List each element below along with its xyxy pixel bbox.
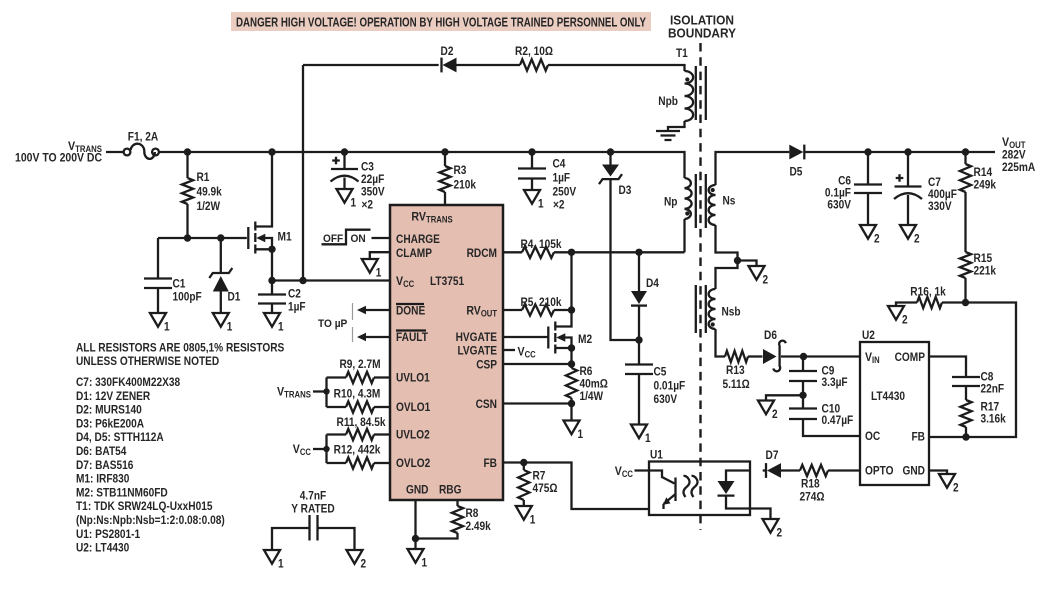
svg-text:OC: OC (865, 429, 880, 443)
resistor R17 (960, 400, 971, 427)
wire output rail (805, 151, 995, 153)
svg-text:CSP: CSP (476, 358, 497, 372)
capacitor C1 (157, 238, 159, 279)
svg-text:ALL RESISTORS ARE 0805,1% RESI: ALL RESISTORS ARE 0805,1% RESISTORS (76, 343, 285, 355)
svg-text:1/2W: 1/2W (197, 199, 221, 213)
svg-text:274Ω: 274Ω (800, 490, 825, 504)
svg-text:1: 1 (422, 555, 428, 569)
wire R18 to OPTO (828, 469, 860, 471)
node junction R1-bottom (184, 234, 191, 241)
wire D6 to VIN (781, 355, 860, 357)
op-amp U1 optocoupler PS2801 (649, 462, 750, 516)
op-amp U2 LT4430 block (860, 342, 929, 485)
wire M2 drain riser (570, 252, 572, 310)
svg-text:M2: STB11NM60FD: M2: STB11NM60FD (76, 487, 168, 499)
resistor R6 (570, 364, 572, 368)
svg-text:HVGATE: HVGATE (456, 330, 497, 344)
transformer T1 winding Nsb (709, 289, 716, 329)
ground 1 at CLAMP pin (370, 252, 390, 259)
svg-text:1: 1 (578, 427, 584, 441)
transformer T1 winding Ns (709, 185, 716, 225)
svg-text:C4: C4 (553, 156, 566, 170)
resistor R13 (725, 351, 748, 362)
node phase dot Ns (711, 188, 715, 192)
node VCC sense (323, 446, 329, 452)
node junction Ns-gnd (734, 257, 741, 264)
svg-text:2: 2 (772, 407, 778, 421)
svg-text:(Np:Ns:Npb:Nsb=1:2:0.08:0.08): (Np:Ns:Npb:Nsb=1:2:0.08:0.08) (76, 515, 225, 527)
svg-text:R8: R8 (466, 506, 479, 520)
node junction clamp-D4 (635, 249, 642, 256)
resistor R2 (520, 59, 548, 70)
svg-text:T1: TDK SRW24LQ-UxxH015: T1: TDK SRW24LQ-UxxH015 (76, 501, 213, 513)
svg-text:C2: C2 (288, 287, 301, 301)
node junction rail-R1 (184, 148, 191, 155)
node junction CSP (568, 360, 575, 367)
svg-text:D3: P6kE200A: D3: P6kE200A (76, 418, 144, 430)
node junction rail-C4 (528, 148, 535, 155)
capacitor C4 (531, 152, 533, 169)
transistor U1 phototransistor (674, 478, 676, 502)
diode D7 (763, 469, 767, 471)
svg-text:100V TO 200V DC: 100V TO 200V DC (15, 152, 103, 165)
svg-text:250V: 250V (553, 184, 577, 198)
svg-text:M1: IRF830: M1: IRF830 (76, 474, 129, 486)
ground 2 under C7 (900, 225, 916, 239)
svg-text:350V: 350V (361, 185, 385, 199)
node VTRANS sense (323, 388, 329, 394)
resistor R5 (503, 309, 522, 311)
diode D1 zener (220, 238, 222, 273)
node junction CSN (568, 400, 575, 407)
capacitor C5 (638, 340, 640, 365)
node junction D3-D4-C5 (635, 336, 642, 343)
node junction R17-FB (962, 433, 969, 440)
svg-text:2: 2 (777, 525, 783, 539)
svg-text:1: 1 (538, 196, 544, 210)
svg-text:D4, D5: STTH112A: D4, D5: STTH112A (76, 432, 164, 444)
transformer T1 core lower (696, 285, 706, 333)
svg-text:GND: GND (903, 464, 926, 478)
svg-text:D2: MURS140: D2: MURS140 (76, 405, 142, 417)
svg-text:D5: D5 (790, 165, 803, 179)
svg-text:OVLO1: OVLO1 (396, 400, 430, 414)
wire CSP (503, 363, 572, 365)
ground 1 under C5 (631, 425, 647, 439)
svg-text:LT3751: LT3751 (430, 274, 464, 288)
ground 2 at R16 (888, 306, 904, 320)
svg-text:1µF: 1µF (553, 171, 571, 185)
diode U1 photodiode (726, 471, 750, 482)
ground 2 under U2 GND (939, 474, 955, 488)
wire Ns top to output rail (716, 152, 790, 185)
danger high voltage banner (231, 12, 651, 31)
node junction divider (962, 299, 969, 306)
svg-text:4.7nF: 4.7nF (300, 489, 327, 503)
svg-text:FB: FB (484, 456, 498, 470)
svg-text:×2: ×2 (553, 197, 565, 211)
wire VCC into U1 (635, 471, 675, 484)
resistor R12 (327, 462, 347, 464)
diode D5 (789, 145, 803, 160)
svg-text:D1: 12V ZENER: D1: 12V ZENER (76, 391, 151, 403)
wire R5 to M2 drain (554, 309, 572, 311)
transistor M2 nmos (555, 310, 571, 327)
wire input to fuse (106, 151, 123, 153)
svg-text:GND: GND (406, 483, 429, 497)
wire DONE arrow to uP (360, 309, 390, 311)
node junction FB-R7 (520, 459, 527, 466)
svg-text:2.49k: 2.49k (466, 519, 491, 533)
svg-text:R2, 10Ω: R2, 10Ω (515, 44, 553, 58)
svg-text:210k: 210k (454, 178, 477, 192)
svg-text:1/4W: 1/4W (580, 389, 604, 403)
capacitor C9 (802, 357, 804, 372)
wire C9 C10 midpoint to ground (766, 395, 803, 400)
svg-text:3.16k: 3.16k (981, 412, 1006, 426)
svg-text:R11, 84.5k: R11, 84.5k (337, 415, 386, 429)
wire LVGATE Vcc (503, 349, 515, 351)
ground 2 under C6 (860, 225, 876, 239)
wire Vcc line to LT3751 (272, 279, 390, 281)
node junction C9-C10 (799, 392, 806, 399)
node junction M2 source (568, 344, 575, 351)
svg-text:1µF: 1µF (288, 300, 306, 314)
wire R15 to divider node (964, 278, 966, 303)
svg-text:R16, 1k: R16, 1k (910, 285, 945, 299)
svg-text:×2: ×2 (362, 198, 374, 212)
svg-text:TO µP: TO µP (318, 318, 347, 330)
svg-text:UVLO1: UVLO1 (396, 371, 430, 385)
svg-text:ON: ON (351, 233, 366, 245)
svg-text:2: 2 (914, 231, 920, 245)
ground 1 under R6 (564, 421, 580, 435)
svg-text:COMP: COMP (895, 350, 925, 364)
diode D4 (638, 252, 640, 291)
node junction rail-D3 (607, 148, 614, 155)
svg-text:DONE: DONE (396, 304, 425, 318)
node junction rail-C6 (864, 148, 871, 155)
wire D2 R2 branch (302, 65, 304, 281)
capacitor C8 (952, 377, 980, 386)
svg-text:D4: D4 (646, 276, 659, 290)
svg-text:D7: D7 (766, 448, 779, 462)
node junction rail-C7 (904, 148, 911, 155)
transformer T1 core mid (696, 174, 706, 228)
resistor R18 (800, 465, 828, 476)
wire R14 to R15 (964, 192, 966, 252)
ground earth Npb (656, 131, 680, 140)
wire FAULT arrow to uP (360, 336, 390, 338)
wire OFF ON to CHARGE pin (372, 237, 391, 239)
ground 1 left of Y cap (264, 550, 280, 564)
svg-text:R5, 210k: R5, 210k (520, 295, 561, 309)
ground 2 under U1 (763, 519, 779, 533)
node junction D6-C9 (800, 353, 807, 360)
fuse F1 (124, 149, 131, 156)
ground 1 under C2 (264, 313, 280, 327)
svg-text:U1: U1 (650, 448, 663, 462)
transformer T1 winding Npb (685, 71, 694, 121)
node junction M1 source (268, 246, 275, 253)
svg-text:475Ω: 475Ω (533, 481, 558, 495)
svg-text:Y RATED: Y RATED (291, 502, 335, 516)
svg-text:2: 2 (874, 231, 880, 245)
wire FB pin (503, 463, 649, 510)
resistor R11 (327, 433, 347, 435)
wire HVGATE to M2 gate (503, 336, 548, 338)
svg-text:Nsb: Nsb (722, 305, 741, 319)
svg-text:D6: D6 (764, 328, 777, 342)
resistor R14 (964, 152, 966, 164)
svg-text:U2: LT4430: U2: LT4430 (76, 543, 129, 555)
ground 1 under C3 (337, 189, 353, 203)
svg-text:U1: PS2801-1: U1: PS2801-1 (76, 529, 141, 541)
ground 2 at Ns bottom (738, 261, 757, 267)
ground 1 under R7 (516, 506, 532, 520)
node junction rail-R14 (962, 148, 969, 155)
wire GND pin down (414, 500, 416, 549)
svg-text:100pF: 100pF (173, 290, 203, 304)
svg-text:C1: C1 (173, 277, 186, 291)
wire R2 to Npb (548, 65, 685, 71)
capacitor C7 (907, 152, 909, 187)
svg-text:C7: 330FK400M22X38: C7: 330FK400M22X38 (76, 377, 181, 389)
svg-text:F1, 2A: F1, 2A (128, 130, 158, 144)
node junction D2-line Vcc (299, 277, 306, 284)
svg-text:OVLO2: OVLO2 (396, 456, 430, 470)
resistor R15 (960, 252, 971, 278)
svg-text:D2: D2 (441, 44, 454, 58)
op-amp U3 LT3751 controller block (390, 205, 503, 500)
svg-text:1: 1 (227, 319, 233, 333)
ground 1 under D1 (213, 313, 229, 327)
svg-text:D7: BAS516: D7: BAS516 (76, 460, 133, 472)
wire Nsb bottom to R13 (716, 329, 726, 357)
ground 1 under LT3751 GND (408, 549, 424, 563)
svg-text:1: 1 (278, 556, 284, 570)
svg-text:Ns: Ns (723, 194, 736, 208)
svg-text:R10, 4.3M: R10, 4.3M (334, 387, 381, 401)
svg-text:M2: M2 (578, 332, 592, 346)
svg-text:CSN: CSN (476, 397, 497, 411)
node junction rail-R3 (441, 148, 448, 155)
diode D6 schottky (763, 349, 777, 364)
wire D7 to R18 (781, 469, 800, 471)
svg-text:CLAMP: CLAMP (396, 246, 432, 260)
svg-text:49.9k: 49.9k (197, 185, 222, 199)
svg-text:330V: 330V (928, 199, 952, 213)
wire main input rail (159, 152, 685, 178)
svg-text:1: 1 (530, 512, 536, 526)
svg-text:D6: BAT54: D6: BAT54 (76, 446, 127, 458)
wire R13 to D6 (748, 355, 763, 357)
node junction rail-M1 (268, 148, 275, 155)
svg-text:FAULT: FAULT (396, 330, 428, 344)
wire U2 GND to ground 2 (929, 471, 947, 475)
svg-text:225mA: 225mA (1002, 160, 1035, 174)
svg-text:22nF: 22nF (981, 382, 1005, 396)
svg-text:RDCM: RDCM (467, 246, 497, 260)
svg-text:2: 2 (902, 312, 908, 326)
transformer T1 core upper (696, 66, 706, 120)
svg-text:T1: T1 (676, 46, 688, 60)
node junction C2 (268, 277, 275, 284)
svg-text:LT4430: LT4430 (871, 389, 905, 403)
transistor M1 nmos (255, 152, 272, 227)
svg-text:D3: D3 (619, 183, 632, 197)
wire Npb to earth ground (668, 121, 685, 131)
svg-text:1: 1 (376, 265, 382, 279)
wire Np bottom to clamp line (683, 219, 685, 252)
wire CSN (503, 402, 572, 404)
ground 1 under C1 (150, 313, 166, 327)
node junction clamp-M2 (568, 249, 575, 256)
svg-text:D1: D1 (228, 290, 241, 304)
resistor R7 (523, 463, 525, 471)
resistor R8 (456, 500, 458, 506)
node junction GND-R8 (412, 535, 419, 542)
wire gate node line (158, 237, 247, 239)
ground 2 at C9 C10 (758, 401, 774, 415)
svg-text:5.11Ω: 5.11Ω (723, 377, 750, 391)
svg-text:1: 1 (351, 195, 357, 209)
node phase dot Np (685, 211, 689, 215)
svg-text:UNLESS OTHERWISE NOTED: UNLESS OTHERWISE NOTED (76, 356, 219, 368)
svg-text:C5: C5 (654, 365, 667, 379)
wire COMP to C8 (929, 357, 966, 378)
svg-text:249k: 249k (974, 178, 997, 192)
svg-text:R13: R13 (726, 363, 745, 377)
svg-text:OPTO: OPTO (865, 464, 894, 478)
svg-text:0.01µF: 0.01µF (654, 379, 686, 393)
svg-text:Npb: Npb (658, 94, 678, 108)
node junction rail-C3 (341, 148, 348, 155)
svg-text:Np: Np (664, 195, 678, 209)
svg-text:630V: 630V (827, 198, 851, 212)
capacitor C6 (867, 152, 869, 185)
svg-text:R18: R18 (801, 477, 820, 491)
svg-text:R12, 442k: R12, 442k (334, 443, 381, 457)
node phase dot Nsb (711, 322, 715, 326)
capacitor C2 (271, 281, 273, 295)
svg-text:BOUNDARY: BOUNDARY (668, 26, 736, 41)
wire clamp line R4 to Np (554, 251, 685, 253)
resistor R4 (503, 251, 522, 253)
svg-text:LVGATE: LVGATE (458, 344, 498, 358)
wire U1 cathode to ground 2 (750, 509, 771, 520)
node phase dot Npb (685, 77, 689, 81)
svg-text:0.47µF: 0.47µF (822, 413, 854, 427)
svg-text:1: 1 (645, 431, 651, 445)
capacitor C10 (789, 409, 817, 420)
light rays in U1 (683, 476, 689, 497)
svg-text:630V: 630V (654, 392, 678, 406)
ground 1 under C4 (524, 190, 540, 204)
svg-text:2: 2 (361, 556, 367, 570)
diode D3 zener (609, 152, 611, 165)
wire Ns bottom (716, 225, 738, 289)
svg-text:FB: FB (912, 430, 926, 444)
svg-text:2: 2 (763, 272, 769, 286)
svg-text:R9, 2.7M: R9, 2.7M (339, 357, 380, 371)
wire FB net (929, 303, 1016, 438)
isolation boundary dashed line (699, 43, 701, 530)
svg-text:1: 1 (278, 319, 284, 333)
wire VCC bus to R11 R12 (325, 435, 327, 464)
node junction D1-top (217, 234, 224, 241)
svg-text:R4, 105k: R4, 105k (520, 237, 561, 251)
capacitor C3 (343, 152, 345, 169)
svg-text:CHARGE: CHARGE (396, 232, 440, 246)
wire VTRANS bus to R9 R10 (325, 378, 327, 408)
svg-text:R3: R3 (454, 163, 467, 177)
resistor R16 (942, 301, 966, 303)
svg-text:R1: R1 (197, 170, 210, 184)
diode D2 (443, 58, 457, 73)
transformer T1 winding Np (685, 178, 692, 219)
svg-text:U2: U2 (862, 328, 875, 342)
node junction R5-M2 (568, 306, 575, 313)
resistor R9 (327, 376, 347, 378)
svg-text:UVLO2: UVLO2 (396, 428, 430, 442)
resistor R10 (327, 406, 347, 408)
svg-text:1: 1 (164, 319, 170, 333)
ground 2 right of Y cap (347, 550, 363, 564)
svg-text:221k: 221k (974, 264, 997, 278)
svg-text:RBG: RBG (439, 483, 462, 497)
resistor R1 (186, 152, 188, 178)
svg-text:M1: M1 (278, 230, 292, 244)
svg-text:2: 2 (953, 480, 959, 494)
svg-text:DANGER HIGH VOLTAGE! OPERATION: DANGER HIGH VOLTAGE! OPERATION BY HIGH V… (236, 15, 646, 30)
svg-text:3.3µF: 3.3µF (822, 375, 848, 389)
resistor R3 (444, 152, 446, 166)
